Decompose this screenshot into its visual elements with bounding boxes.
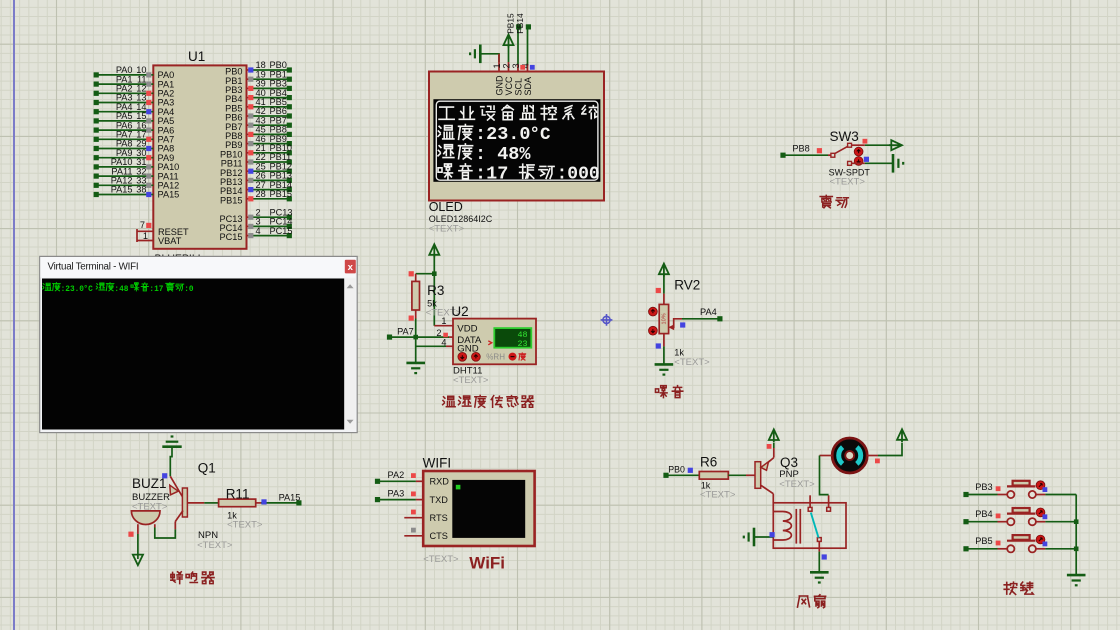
power terminal at RV2 — [659, 264, 669, 294]
button PB5 actuator — [1036, 535, 1047, 546]
svg-text:<TEXT>: <TEXT> — [779, 479, 815, 490]
wire button PB3 to bus — [1036, 494, 1076, 496]
svg-text:<TEXT>: <TEXT> — [429, 224, 465, 235]
wire PA5 to U1 pin 15 — [94, 111, 175, 126]
OLED screen text line1 — [439, 105, 597, 120]
wire PA10 to U1 pin 31 — [94, 157, 180, 172]
ground (rotated) at OLED pin 1 — [470, 45, 499, 64]
Q3 type PNP — [779, 469, 799, 480]
R3 reference label — [427, 283, 444, 298]
wire button bus to ground — [1074, 495, 1079, 576]
svg-text:PC15: PC15 — [270, 226, 293, 236]
svg-text::000: :000 — [557, 164, 600, 184]
svg-text:SW3: SW3 — [830, 129, 859, 144]
wire BUZ1 left leg to power (down) — [128, 524, 143, 565]
IC U1 BLUEPILL body — [153, 65, 246, 248]
svg-text:SCL: SCL — [513, 78, 523, 96]
svg-text::0: :0 — [184, 286, 194, 294]
node PB4 wire to button — [963, 509, 1007, 524]
DHT11 up/down buttons — [458, 352, 480, 361]
WIFI screen — [452, 480, 525, 538]
wire PB7 from U1 pin 43 — [225, 115, 292, 131]
node PA15 wire from R11 — [261, 493, 302, 506]
buzzer BUZ1 body — [131, 511, 160, 525]
wire PB9 from U1 pin 46 — [225, 134, 292, 150]
svg-text:1: 1 — [143, 231, 148, 241]
svg-text:1: 1 — [441, 316, 446, 326]
OLED pin state squares — [520, 65, 534, 70]
label: noise — [655, 386, 682, 398]
OLED pin names GND VCC SCL SDA — [494, 75, 533, 96]
label: temp/humidity sensor — [443, 395, 534, 407]
DHT11 U2 body — [453, 319, 536, 365]
svg-text:GND: GND — [494, 75, 504, 96]
WIFI TEXT placeholder — [423, 554, 459, 565]
svg-text:U1: U1 — [188, 49, 205, 64]
svg-text:<TEXT>: <TEXT> — [227, 520, 263, 531]
wire PB14 from U1 pin 27 — [220, 180, 292, 196]
svg-text:Virtual Terminal - WIFI: Virtual Terminal - WIFI — [48, 261, 139, 272]
Q3 reference label — [780, 455, 798, 470]
R6 value 1k — [701, 481, 711, 491]
wire PC14 from U1 pin 3 — [220, 217, 293, 233]
wire PB5 from U1 pin 41 — [225, 97, 292, 113]
svg-text::48: :48 — [114, 286, 128, 294]
DHT11 pin stubs + numbers — [434, 316, 453, 347]
svg-text:CTS: CTS — [430, 531, 448, 541]
svg-text:RXD: RXD — [430, 477, 450, 487]
svg-text:U2: U2 — [451, 304, 468, 319]
wire PC13 from U1 pin 2 — [220, 207, 293, 223]
ground (flipped) above Q1 — [162, 437, 181, 447]
svg-text:PB15: PB15 — [270, 189, 292, 199]
node PB15 / wire to OLED pin 3 SCL — [506, 13, 522, 72]
node PB14 / wire to OLED pin 4 SDA — [515, 13, 531, 72]
svg-text:TXD: TXD — [430, 495, 449, 505]
wire PB10 from U1 pin 21 — [220, 143, 292, 159]
svg-text:PA2: PA2 — [388, 470, 405, 480]
power terminal at R3/DHT11 VDD — [429, 244, 439, 326]
R11 reference label — [226, 486, 250, 501]
OLED value label — [429, 214, 493, 224]
DHT11 %RH + temp marks — [486, 352, 525, 361]
relay contacts — [808, 495, 830, 541]
button PB4 actuator — [1036, 508, 1047, 519]
node PA2 wire to WIFI RXD — [375, 470, 423, 484]
svg-text:23: 23 — [517, 339, 527, 349]
svg-text:WiFi: WiFi — [469, 554, 505, 573]
virtual terminal scrollbar — [344, 279, 355, 430]
svg-text:SDA: SDA — [523, 77, 533, 96]
U1 RESET pin 7 — [137, 220, 189, 242]
svg-text:PB15: PB15 — [220, 195, 242, 205]
wire R3 bottom to ground — [415, 319, 417, 363]
motor FAN — [832, 438, 867, 473]
RV2 value 1k — [674, 348, 684, 358]
WIFI RTS stub — [404, 510, 423, 518]
svg-text:PA7: PA7 — [397, 326, 414, 336]
svg-text:1: 1 — [492, 63, 502, 68]
resistor R3 — [412, 274, 420, 319]
potentiometer RV2 body — [659, 294, 668, 347]
SW3 reference label — [830, 129, 859, 144]
wire DHT11 GND pin — [416, 345, 453, 347]
RV2 reference label — [674, 278, 700, 293]
svg-text:PA15: PA15 — [279, 493, 301, 503]
R3 TEXT placeholder — [426, 308, 462, 319]
svg-text:VDD: VDD — [457, 324, 477, 335]
svg-text:RTS: RTS — [430, 513, 448, 523]
wire PA8 to U1 pin 29 — [94, 139, 175, 154]
virtual terminal green text — [43, 283, 194, 294]
Q1 state square — [162, 473, 167, 478]
svg-text:Q3: Q3 — [780, 455, 798, 470]
WIFI module body — [423, 471, 534, 546]
wire button PB5 to bus — [1036, 548, 1076, 550]
svg-text:PC15: PC15 — [220, 232, 243, 242]
U1 value label BLUEPILL — [155, 253, 204, 265]
svg-text:PB4: PB4 — [975, 509, 992, 519]
svg-text:<TEXT>: <TEXT> — [453, 375, 489, 386]
wire PB0 from U1 pin 18 — [225, 60, 292, 76]
DHT11 TEXT placeholder — [453, 375, 489, 386]
label: WiFi — [469, 554, 505, 573]
node PA3 wire to WIFI TXD — [375, 488, 423, 502]
wire motor to relay NO contact — [820, 456, 833, 495]
push button PB4 — [1007, 508, 1036, 525]
OLED TEXT placeholder — [429, 224, 465, 235]
OLED screen text line2 — [438, 124, 551, 145]
R6 reference label — [700, 455, 717, 470]
svg-text:VCC: VCC — [504, 76, 514, 96]
SW3 value label — [829, 168, 871, 178]
U1 reference label — [188, 49, 205, 64]
wire VDD branch to R3 — [416, 271, 437, 276]
relay coil — [773, 509, 800, 544]
virtual terminal close button — [345, 260, 356, 274]
svg-text:PB5: PB5 — [975, 536, 992, 546]
wire BUZ1 right leg to Q1 collector — [155, 522, 176, 539]
svg-text:38: 38 — [136, 185, 146, 195]
wire PA15 to U1 pin 38 — [94, 185, 180, 200]
WIFI CTS stub — [404, 528, 423, 536]
virtual terminal screen — [42, 279, 344, 430]
virtual terminal window — [40, 256, 358, 432]
label: vibration — [820, 195, 848, 207]
svg-text:%RH: %RH — [486, 352, 505, 361]
svg-text:<TEXT>: <TEXT> — [830, 177, 866, 188]
wire R6 to Q3 base — [728, 474, 755, 476]
svg-text::23.0: :23.0 — [475, 124, 531, 145]
svg-text:2: 2 — [502, 63, 512, 68]
wire PB15 from U1 pin 28 — [220, 189, 292, 205]
svg-text:OLED: OLED — [429, 200, 463, 214]
node PB3 wire to button — [963, 482, 1007, 497]
wire PB6 from U1 pin 42 — [225, 106, 292, 122]
transistor Q3 PNP — [755, 458, 774, 494]
wire motor to power — [867, 429, 907, 463]
button PB3 actuator — [1036, 481, 1047, 492]
svg-text::23.0: :23.0 — [61, 286, 85, 294]
ground under RV2 — [655, 364, 674, 374]
svg-text:: 48%: : 48% — [475, 144, 531, 165]
svg-text:<TEXT>: <TEXT> — [674, 357, 710, 368]
wire PA9 to U1 pin 30 — [94, 148, 175, 163]
wire PC15 from U1 pin 4 — [220, 226, 293, 242]
wire PA3 to U1 pin 13 — [94, 93, 175, 108]
OLED screen text line3 — [438, 144, 531, 165]
svg-text:OLED12864I2C: OLED12864I2C — [429, 214, 493, 224]
transistor Q1 NPN — [170, 476, 188, 521]
DHT11 LCD readout — [488, 328, 531, 349]
SW3 toggle buttons — [854, 147, 869, 165]
R11 value 1k — [227, 511, 237, 521]
svg-text:<TEXT>: <TEXT> — [423, 554, 459, 565]
push button PB5 — [1007, 535, 1036, 552]
svg-text:4: 4 — [441, 337, 446, 347]
OLED screen text line4 — [438, 163, 600, 184]
wire PB11 from U1 pin 22 — [221, 152, 292, 168]
svg-text:WIFI: WIFI — [423, 456, 452, 471]
RV2 TEXT placeholder — [674, 357, 710, 368]
wire PB8 from U1 pin 45 — [225, 125, 292, 141]
svg-text:°C: °C — [83, 285, 93, 294]
wire RV2 to ground — [663, 346, 665, 364]
svg-text:BUZ1: BUZ1 — [132, 476, 167, 491]
RV2 up/down buttons — [649, 307, 658, 335]
svg-text:4: 4 — [256, 226, 261, 236]
svg-text:PB0: PB0 — [668, 464, 685, 474]
svg-text:28: 28 — [256, 189, 266, 199]
svg-text:<TEXT>: <TEXT> — [700, 490, 736, 501]
resistor R6 — [699, 472, 728, 480]
R6 TEXT placeholder — [700, 490, 736, 501]
svg-text:PA15: PA15 — [111, 185, 133, 195]
svg-text:x: x — [348, 262, 354, 273]
svg-text:PA15: PA15 — [158, 190, 180, 200]
push button PB3 — [1007, 481, 1036, 498]
ground under relay — [810, 572, 829, 582]
wire PB4 from U1 pin 40 — [225, 88, 292, 104]
wire button PB4 to bus — [1036, 521, 1076, 523]
SW3 TEXT placeholder — [830, 177, 866, 188]
svg-text:Q1: Q1 — [198, 461, 216, 476]
svg-text:RV2: RV2 — [674, 278, 700, 293]
switch SW3 SPDT — [831, 143, 852, 165]
wire Q1 base to R11 — [187, 502, 218, 504]
node PB8 wire to SW3 — [780, 144, 831, 158]
wire PB3 from U1 pin 39 — [225, 79, 292, 95]
OLED screen — [433, 99, 600, 182]
wire PA1 to U1 pin 11 — [94, 74, 175, 89]
wire PB12 from U1 pin 25 — [220, 161, 292, 177]
wire Q3 collector to relay — [772, 494, 774, 503]
svg-text:°C: °C — [530, 125, 552, 145]
svg-text:PA3: PA3 — [388, 488, 405, 498]
svg-text:R3: R3 — [427, 283, 444, 298]
R3 value 5k — [427, 299, 437, 309]
wire PB1 from U1 pin 19 — [225, 69, 292, 85]
power terminal VCC at OLED pin 2 — [504, 35, 514, 72]
wire PA11 to U1 pin 32 — [94, 166, 179, 181]
WIFI reference label — [423, 456, 452, 471]
svg-text::17: :17 — [149, 286, 163, 294]
ground (rotated) at relay coil — [744, 528, 775, 547]
svg-text:PB8: PB8 — [792, 144, 809, 154]
svg-text::17: :17 — [475, 163, 508, 184]
svg-text:R6: R6 — [700, 455, 717, 470]
svg-text:7: 7 — [140, 220, 145, 230]
node PA7 wire to DHT11 DATA — [387, 326, 449, 339]
wire SW3 NC to ground — [852, 154, 904, 173]
svg-text:1k: 1k — [674, 348, 684, 358]
svg-text:PA4: PA4 — [700, 307, 717, 317]
DHT11 value label — [453, 366, 482, 377]
RV2 state squares — [656, 288, 686, 349]
wire OLED pin1 GND — [498, 54, 500, 72]
wire PA6 to U1 pin 16 — [94, 120, 175, 135]
label: fan — [798, 595, 826, 608]
wire PA4 to U1 pin 14 — [94, 102, 175, 117]
wire PA2 to U1 pin 12 — [94, 84, 175, 99]
power terminal at Q3 emitter — [767, 429, 779, 457]
SW3 state squares — [817, 139, 868, 154]
buzzer BUZ1 labels — [132, 476, 167, 491]
node PB0 wire to R6 — [663, 464, 699, 478]
U2 reference label — [451, 304, 468, 319]
ground under buttons — [1067, 575, 1086, 585]
node PB5 wire to button — [963, 536, 1007, 551]
WIFI pin names — [430, 477, 450, 542]
svg-text:R11: R11 — [226, 486, 250, 501]
R11 TEXT placeholder — [227, 520, 263, 531]
wire PA7 to U1 pin 17 — [94, 130, 175, 145]
R3 state squares — [409, 271, 414, 321]
OLED pin numbers 1-4 — [492, 63, 531, 68]
svg-text:PB15: PB15 — [506, 13, 516, 34]
wire ground to Q1 collector — [170, 447, 172, 477]
wire SW3 NO to power — [852, 140, 902, 150]
svg-text:PB3: PB3 — [975, 482, 992, 492]
ground under R3 — [406, 363, 425, 373]
svg-text:<TEXT>: <TEXT> — [197, 540, 233, 551]
wire PA12 to U1 pin 33 — [94, 176, 180, 191]
DHT11 pin names — [457, 324, 482, 355]
virtual terminal title — [48, 261, 139, 272]
wire PB13 from U1 pin 26 — [220, 171, 292, 187]
svg-text:10%: 10% — [662, 313, 668, 324]
wire PA0 to U1 pin 10 — [94, 65, 175, 80]
svg-text:PB14: PB14 — [515, 13, 525, 34]
svg-text:3: 3 — [511, 63, 521, 68]
Q1 type label NPN — [198, 530, 218, 541]
OLED module body — [429, 72, 604, 201]
label: buzzer — [171, 572, 214, 584]
svg-text:VBAT: VBAT — [158, 236, 182, 246]
U1 VBAT pin 1 — [137, 231, 182, 246]
resistor R11 — [219, 499, 261, 507]
RV2 wiper + wire to PA4 — [668, 307, 722, 330]
origin marker — [601, 314, 613, 326]
relay RL body — [773, 503, 846, 548]
Q1 reference label — [198, 461, 216, 476]
label: keys — [1004, 582, 1033, 594]
wire relay common to ground — [819, 541, 827, 572]
OLED reference label — [429, 200, 463, 214]
